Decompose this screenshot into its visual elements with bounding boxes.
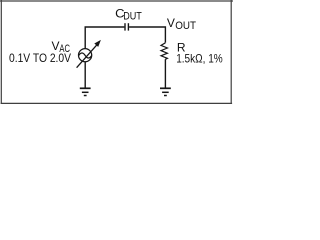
svg-text:V: V [167,16,175,30]
wire top-left: source top to capacitor left plate [85,27,124,48]
capacitor C_DUT [125,23,128,30]
svg-text:0.1V TO 2.0V: 0.1V TO 2.0V [9,51,71,65]
svg-text:OUT: OUT [175,20,196,32]
svg-text:1.5kΩ, 1%: 1.5kΩ, 1% [176,52,223,66]
svg-text:DUT: DUT [123,10,142,22]
variable-source arrow [77,40,101,68]
sine wave inside source [79,53,92,58]
AC source V_AC (circle) [79,49,92,62]
wire top-right: capacitor right plate to resistor top [129,27,165,43]
label V_AC [52,39,71,55]
wire: source bottom to ground [84,62,86,88]
ground (left) [80,88,91,95]
label C_DUT [115,7,142,23]
resistor R zigzag [161,43,167,60]
ground (right) [160,88,171,95]
label V_OUT [167,16,196,32]
wire: resistor bottom to ground [164,59,166,88]
